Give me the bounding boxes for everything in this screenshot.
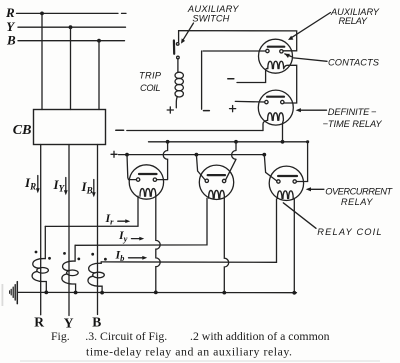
overcurrent relay 3 bbox=[269, 166, 303, 200]
arrow Ir bbox=[118, 220, 128, 222]
svg-text:B: B bbox=[92, 314, 101, 329]
svg-text:COIL: COIL bbox=[140, 83, 161, 93]
phase bus R line bbox=[17, 12, 127, 14]
wire Ir (CT R secondary to relay 1 coil) bbox=[45, 196, 138, 226]
time relay coil left lead bbox=[263, 120, 268, 130]
svg-text:RELAY: RELAY bbox=[339, 16, 368, 26]
negative bus to time relay coil bbox=[127, 130, 263, 132]
CT B polarity dots bbox=[91, 253, 94, 256]
+ bus lead to relay 2 left contact bbox=[196, 155, 205, 180]
phase bus B line bbox=[18, 40, 125, 42]
pointer auxiliary relay bbox=[291, 13, 331, 39]
aux relay coil bbox=[268, 61, 284, 68]
plus sign (time relay) bbox=[230, 106, 236, 112]
svg-text:RELAY: RELAY bbox=[341, 197, 373, 207]
plus feed to time relay contact bbox=[235, 100, 264, 103]
minus label (aux coil) bbox=[228, 78, 234, 80]
wire R below CB bbox=[40, 145, 42, 315]
junction CT B secondary bbox=[100, 291, 104, 295]
pointer contacts bbox=[294, 58, 328, 61]
pointer auxiliary switch bbox=[183, 23, 194, 40]
arrow Ib bbox=[129, 257, 145, 259]
svg-text:−TIME RELAY: −TIME RELAY bbox=[323, 119, 383, 129]
svg-text:CONTACTS: CONTACTS bbox=[328, 58, 380, 68]
aux relay left contact wire to minus terminal bbox=[202, 51, 266, 109]
svg-text:OVERCURRENT: OVERCURRENT bbox=[325, 187, 393, 197]
definite-time relay U2 bbox=[258, 90, 293, 125]
wire B drop to CB bbox=[98, 41, 100, 110]
overcurrent relay 2 bbox=[199, 165, 233, 199]
svg-text:TRIP: TRIP bbox=[139, 71, 162, 81]
node Y tap bbox=[69, 25, 73, 29]
relay 3 right contact riser bbox=[296, 142, 307, 182]
CT Y bbox=[74, 245, 76, 261]
plus sign (trip coil) bbox=[167, 107, 173, 113]
CT R (current transformer on R phase) bbox=[44, 226, 46, 258]
DC positive bus bbox=[119, 154, 265, 156]
CT common return bus bbox=[17, 291, 296, 293]
auxiliary relay U1 bbox=[259, 39, 293, 73]
circuit breaker CB box bbox=[34, 110, 106, 145]
arrow IY bbox=[65, 178, 67, 193]
relay 3 coil right return bbox=[293, 199, 295, 293]
minus label (neg bus) bbox=[116, 129, 124, 131]
wire Y drop to CB bbox=[70, 27, 72, 109]
minus label (trip supply) bbox=[204, 110, 210, 112]
svg-text:Fig..3. Circuit of Fig..2 with: Fig..3. Circuit of Fig..2 with addition … bbox=[51, 329, 330, 343]
relay 1 coil right return with hops bbox=[156, 196, 160, 292]
plus sign (+ bus) bbox=[111, 151, 117, 157]
CT Y polarity dots bbox=[63, 252, 66, 255]
wire switch to trip coil bbox=[177, 59, 179, 72]
phase bus Y line bbox=[18, 26, 126, 28]
junction CT Y secondary bbox=[74, 291, 78, 295]
wire B below CB bbox=[97, 145, 99, 315]
junction CT R secondary bbox=[44, 291, 48, 295]
arrow IB bbox=[93, 180, 95, 195]
svg-text:DEFINITE −: DEFINITE − bbox=[328, 107, 377, 117]
CT B bbox=[100, 262, 102, 263]
arrow Iy bbox=[132, 238, 142, 240]
relay 2 right contact riser with hop bbox=[226, 142, 237, 180]
svg-text:B: B bbox=[6, 33, 16, 48]
pointer overcurrent relay bbox=[308, 188, 324, 190]
svg-text:CB: CB bbox=[13, 123, 32, 138]
trip coil bbox=[175, 72, 183, 78]
svg-text:RELAY COIL: RELAY COIL bbox=[317, 227, 381, 237]
arrow IR bbox=[37, 176, 39, 191]
relay 2 coil bbox=[209, 190, 225, 198]
time relay coil right lead bbox=[282, 120, 285, 142]
node B tap bbox=[97, 39, 101, 43]
scan smudge bottom bbox=[20, 360, 380, 362]
pointer definite-time relay bbox=[298, 109, 327, 111]
relay 3 coil bbox=[277, 191, 293, 199]
scan smudge left edge bbox=[2, 284, 4, 306]
relay 1 right contact riser with hop bbox=[157, 142, 168, 180]
wire R drop to CB bbox=[41, 13, 43, 109]
auxiliary switch bbox=[179, 31, 297, 51]
svg-text:R: R bbox=[5, 5, 15, 20]
aux relay coil left lead to minus bbox=[237, 68, 268, 82]
svg-text:time-delay relay and an auxili: time-delay relay and an auxiliary relay. bbox=[86, 345, 292, 359]
svg-text:SWITCH: SWITCH bbox=[192, 13, 229, 23]
aux relay coil right lead to time relay contact bbox=[284, 65, 297, 103]
wire Iy (CT Y secondary to relay 2 coil) bbox=[75, 198, 207, 245]
CT R polarity dots bbox=[35, 251, 38, 254]
relay 2 coil right return with hop bbox=[224, 198, 228, 293]
time relay coil bbox=[268, 113, 284, 121]
+ bus lead to relay 3 left contact bbox=[264, 155, 277, 181]
overcurrent relay 1 bbox=[129, 165, 163, 199]
wire Y below CB bbox=[68, 145, 70, 316]
wire Ib (CT B secondary to relay 3 coil) bbox=[101, 199, 276, 262]
+ bus lead to relay 1 left contact bbox=[127, 155, 136, 180]
node R tap bbox=[40, 12, 44, 16]
contacts common bus (to time relay) bbox=[149, 141, 308, 143]
ground bbox=[16, 282, 18, 304]
svg-text:R: R bbox=[34, 314, 44, 329]
pointer relay coil bbox=[283, 203, 316, 229]
relay 1 coil bbox=[140, 189, 156, 197]
